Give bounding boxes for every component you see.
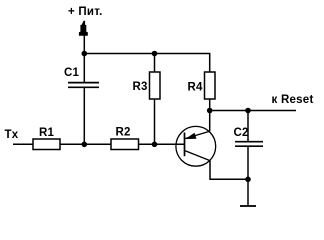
wire C2 to emitter rail — [247, 146, 249, 179]
svg-text:C1: C1 — [64, 67, 80, 79]
svg-text:к Reset: к Reset — [272, 94, 314, 106]
node junction C1 bottom — [82, 142, 88, 148]
transistor Q1 body — [176, 126, 216, 166]
wire R4 to reset node — [209, 99, 211, 111]
capacitor C1 — [68, 83, 99, 88]
transistor Q1 emitter line — [185, 151, 211, 161]
node junction C2 top — [245, 108, 251, 114]
svg-text:R3: R3 — [133, 81, 148, 93]
wire to ground — [247, 179, 249, 206]
wire power arrow to top rail — [83, 34, 85, 54]
node junction top left — [82, 51, 88, 57]
wire R1 to R2 — [60, 143, 111, 145]
resistor R3 — [150, 72, 161, 99]
svg-text:R1: R1 — [39, 127, 55, 139]
wire R2 to base — [139, 143, 185, 145]
wire top rail to R3 — [154, 54, 156, 73]
node junction top middle — [152, 51, 158, 57]
resistor R2 — [111, 139, 139, 150]
capacitor C2 — [235, 142, 263, 147]
wire C1 to base rail — [83, 87, 85, 144]
wire emitter drop — [210, 161, 248, 180]
wire collector drop — [209, 111, 211, 132]
node junction below R3 — [152, 142, 158, 148]
svg-text:R2: R2 — [116, 127, 131, 139]
svg-text:Tx: Tx — [5, 129, 19, 141]
wire top rail to C1 — [83, 54, 85, 83]
wire R3 to base rail — [154, 99, 156, 144]
node junction below R4 — [207, 108, 213, 114]
wire reset node to C2 — [247, 111, 249, 142]
transistor Q1 base bar — [184, 133, 186, 157]
transistor Q1 collector arrow — [185, 133, 197, 139]
node junction emitter rail — [245, 177, 251, 183]
power arrow — [79, 21, 88, 36]
resistor R4 — [205, 72, 216, 99]
svg-text:C2: C2 — [234, 127, 249, 139]
wire reset rail — [210, 110, 296, 112]
transistor Q1 collector line — [185, 131, 210, 139]
svg-text:R4: R4 — [188, 82, 204, 94]
svg-text:+ Пит.: + Пит. — [68, 6, 103, 18]
wire top rail — [84, 54, 209, 72]
resistor R1 — [33, 139, 60, 150]
wire Tx to R1 — [13, 143, 33, 145]
ground — [240, 205, 256, 207]
